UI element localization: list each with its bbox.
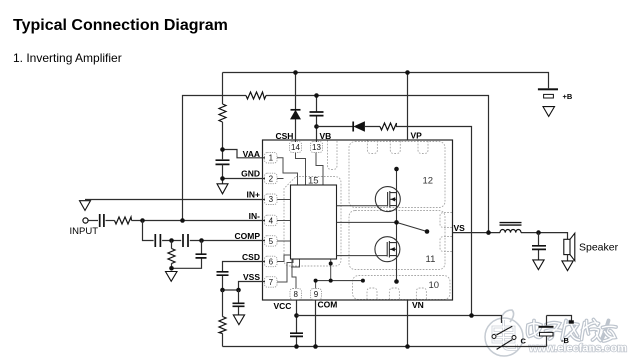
svg-text:IN-: IN- <box>249 211 261 221</box>
node region10 dot <box>361 279 365 283</box>
node com dot <box>314 279 318 283</box>
wire VAA branch top <box>222 73 224 105</box>
switch terminal 2 <box>512 336 516 340</box>
node source dot <box>394 279 399 284</box>
capacitor VCC <box>290 333 303 336</box>
controller block <box>291 185 337 259</box>
wire VS cap column <box>538 233 540 260</box>
svg-text:12: 12 <box>423 176 434 187</box>
pin boxes bottom 8 9 <box>290 289 322 300</box>
svg-text:COMP: COMP <box>235 231 261 241</box>
switch terminal 1 <box>492 335 496 339</box>
wire M1 gate <box>337 205 388 207</box>
wire VP column <box>407 73 409 141</box>
battery -B plus plate <box>539 326 554 328</box>
diode bootstrap <box>352 122 354 132</box>
svg-text:8: 8 <box>293 290 298 299</box>
capacitor COMP 2 <box>183 234 188 247</box>
wire VCC column <box>296 300 298 347</box>
node midpoint dot <box>394 220 399 225</box>
transistor M1 arrow <box>391 197 396 201</box>
transistor M2 low side <box>375 237 400 262</box>
svg-text:www.elecfans.com: www.elecfans.com <box>528 343 627 355</box>
wire VSS <box>223 282 266 291</box>
pin numbers <box>269 143 322 299</box>
region 12 dashed <box>349 142 445 208</box>
ground speaker <box>562 261 573 271</box>
pin boxes top 14 13 <box>290 142 323 153</box>
node VB bootstrap <box>314 124 319 129</box>
svg-text:VN: VN <box>412 300 424 310</box>
capacitor VAA <box>216 160 230 164</box>
inductor core bars <box>500 223 522 226</box>
pin labels top <box>276 131 423 142</box>
internal wire pin9 to source line <box>315 281 317 289</box>
internal wire substrate column <box>330 259 332 281</box>
internal wire pin2 to pad <box>277 178 284 180</box>
resistor COMP <box>168 249 175 264</box>
ground VSS <box>233 315 244 325</box>
svg-text:VP: VP <box>411 131 423 141</box>
svg-text:6: 6 <box>269 257 274 266</box>
wire feedback <box>183 96 489 233</box>
node region11 dot <box>425 229 430 234</box>
svg-text:1: 1 <box>269 154 274 163</box>
node substrate dot A <box>329 262 333 266</box>
wire top supply rail <box>223 73 549 89</box>
battery -B terminal tick <box>569 320 574 323</box>
node CSD col <box>220 288 225 293</box>
svg-text:Typical Connection Diagram: Typical Connection Diagram <box>13 17 228 34</box>
node VSS col <box>236 288 241 293</box>
wire -B bracket <box>547 316 572 347</box>
diode CSH bootstrap <box>291 109 301 111</box>
svg-text:GND: GND <box>241 169 260 179</box>
capacitor input <box>100 214 104 227</box>
svg-text:-B: -B <box>561 336 569 345</box>
pin boxes left 1-7 <box>265 153 278 288</box>
wire VAA to pin1 <box>223 122 266 159</box>
speaker SP1 <box>564 239 570 254</box>
internal wire pin13 to block <box>316 153 323 186</box>
svg-text:5: 5 <box>269 237 274 246</box>
resistor input <box>115 217 132 224</box>
node COMP a <box>169 238 174 243</box>
wire half-bridge midpoint sense <box>337 221 397 223</box>
wire VB column <box>316 96 318 143</box>
resistor VAA <box>219 104 226 122</box>
node drain dot <box>394 167 399 172</box>
switch blade <box>496 326 512 335</box>
node VS feedback <box>486 230 491 235</box>
wire COMP branch <box>143 221 266 241</box>
watermark hanzi row <box>527 320 616 342</box>
wire VSS cap column <box>238 290 240 315</box>
wire M2 gate <box>337 255 388 257</box>
node IN- comp branch <box>140 218 145 223</box>
ground IN+ <box>80 201 91 211</box>
ground +B <box>543 107 555 117</box>
svg-text:9: 9 <box>314 290 319 299</box>
svg-text:IN+: IN+ <box>247 190 261 200</box>
wire comp cap column <box>172 241 202 269</box>
capacitor VB <box>310 112 324 116</box>
wire VCC supply line <box>297 316 502 324</box>
resistor feedback <box>246 92 266 99</box>
wire VS output <box>453 233 568 240</box>
wire CSD pulldown column <box>222 290 224 347</box>
svg-text:3: 3 <box>269 195 274 204</box>
svg-text:COM: COM <box>318 300 338 310</box>
wire COM column <box>315 300 317 347</box>
svg-text:7: 7 <box>269 278 274 287</box>
node VCC rail <box>294 313 299 318</box>
node top rail CSH <box>293 70 298 75</box>
wire bottom rail <box>223 346 547 348</box>
node VN bottom <box>405 344 410 349</box>
terminal INPUT <box>83 218 88 223</box>
svg-text:VB: VB <box>320 131 332 141</box>
ground COMP <box>166 272 178 282</box>
internal wire pin5 <box>277 240 291 242</box>
watermark disc logo <box>485 310 523 356</box>
internal source/com line <box>316 280 363 282</box>
top lead fingers <box>367 141 428 154</box>
svg-text:11: 11 <box>426 254 436 265</box>
ground VAA <box>217 184 228 194</box>
svg-text:+B: +B <box>563 92 573 101</box>
svg-text:VCC: VCC <box>274 301 292 311</box>
internal wire pin7 to block <box>277 259 293 282</box>
internal wire pin4 <box>277 220 291 222</box>
capacitor CSD <box>217 272 229 275</box>
node VAA <box>220 147 225 152</box>
wire VAA cap to ground <box>223 164 266 183</box>
die pad 15 dashed outline <box>284 177 341 267</box>
resistor pulldown <box>219 317 226 334</box>
watermark glyph dian logo <box>493 320 517 350</box>
IC outer body U1 <box>263 140 453 300</box>
svg-text:VS: VS <box>454 223 466 233</box>
capacitor output <box>532 246 546 250</box>
pin labels left <box>235 149 261 282</box>
internal wire pin14 to block <box>296 153 306 186</box>
capacitor COMP 1 <box>155 234 160 247</box>
node substrate dot B <box>329 279 333 283</box>
lead finger pin13 <box>328 141 338 170</box>
bottom lead fingers <box>367 288 426 300</box>
wire IN- line <box>132 220 266 222</box>
region 10 dashed <box>353 276 451 300</box>
wire cap to resistor <box>106 220 115 222</box>
internal wire block stub <box>291 259 300 267</box>
wire CSD <box>223 262 266 291</box>
wire IN+ <box>85 199 265 201</box>
wire bootstrap to VCC <box>317 127 472 316</box>
node COM bottom <box>313 344 318 349</box>
switch pole 2 <box>497 340 513 350</box>
wire input to cap <box>88 220 98 222</box>
node feedback VB <box>314 93 319 98</box>
wire CSH column <box>295 73 297 143</box>
capacitor VSS <box>233 303 245 306</box>
node top rail VP <box>405 70 410 75</box>
battery -B minus plate <box>540 332 554 336</box>
wire speaker ground <box>567 255 569 261</box>
internal wire pin1 to block <box>277 158 298 185</box>
wire M1 drain-source vertical <box>396 169 398 282</box>
ground output cap <box>533 260 544 270</box>
transistor M1 high side <box>375 187 400 212</box>
node bootstrap VCC <box>469 313 474 318</box>
battery +B plus plate <box>538 88 558 90</box>
battery +B minus plate <box>544 94 554 98</box>
svg-text:13: 13 <box>312 143 321 152</box>
inductor output <box>500 229 521 232</box>
internal wire pin8 to block <box>292 259 296 289</box>
pin labels bottom <box>274 300 424 312</box>
svg-text:CSH: CSH <box>276 131 294 141</box>
svg-text:VSS: VSS <box>243 272 260 282</box>
svg-text:CSD: CSD <box>242 252 260 262</box>
node VS cap <box>536 230 541 235</box>
svg-text:14: 14 <box>291 143 300 152</box>
resistor bootstrap <box>380 123 397 130</box>
svg-text:C: C <box>521 337 527 346</box>
node COMP b <box>199 238 204 243</box>
svg-text:INPUT: INPUT <box>70 226 99 237</box>
svg-text:10: 10 <box>429 280 440 291</box>
internal wire pin3 <box>277 199 291 201</box>
internal wire pin6 to block <box>277 255 291 262</box>
svg-text:4: 4 <box>269 216 274 225</box>
svg-text:2: 2 <box>269 174 274 183</box>
svg-text:1. Inverting Amplifier: 1. Inverting Amplifier <box>13 51 122 65</box>
node VCC bottom <box>294 344 299 349</box>
transistor M2 arrow <box>390 247 395 251</box>
svg-text:Speaker: Speaker <box>579 242 619 254</box>
wire comp res column <box>171 241 173 269</box>
node comp ground <box>169 266 174 271</box>
wire VN column <box>407 300 409 347</box>
region 11 dashed <box>349 211 445 270</box>
node GND tee <box>220 176 225 181</box>
wire output diagonal to region 11 <box>397 222 428 231</box>
node IN- feedback <box>180 218 185 223</box>
capacitor COMP 3 <box>196 254 207 258</box>
right lead fingers VS <box>440 213 452 252</box>
